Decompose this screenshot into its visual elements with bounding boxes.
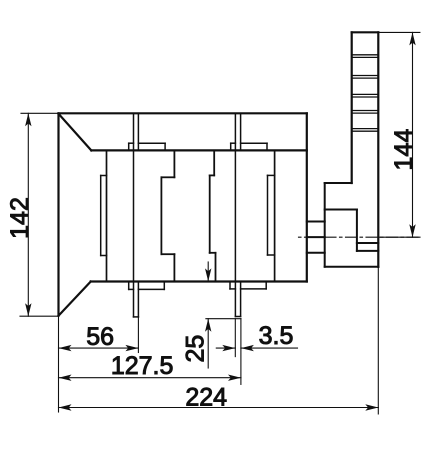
svg-text:56: 56	[86, 323, 114, 351]
svg-text:224: 224	[185, 383, 227, 411]
svg-text:142: 142	[6, 197, 34, 239]
svg-text:25: 25	[182, 335, 210, 363]
svg-text:3.5: 3.5	[259, 322, 294, 350]
svg-text:144: 144	[390, 129, 418, 171]
svg-text:127.5: 127.5	[111, 352, 174, 380]
